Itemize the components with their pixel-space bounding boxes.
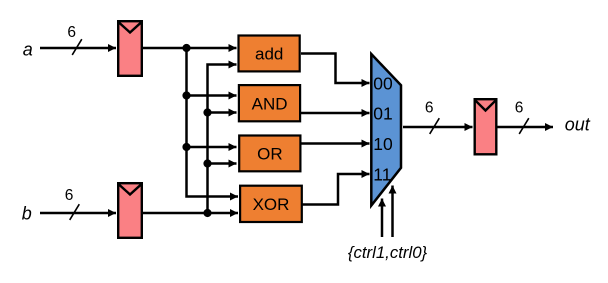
svg-text:out: out — [565, 115, 591, 135]
svg-text:10: 10 — [373, 134, 393, 154]
svg-text:11: 11 — [373, 165, 391, 185]
svg-text:6: 6 — [425, 100, 434, 117]
svg-text:6: 6 — [65, 187, 74, 204]
svg-text:01: 01 — [373, 104, 392, 124]
svg-text:AND: AND — [252, 94, 288, 113]
svg-text:6: 6 — [515, 100, 524, 117]
svg-text:00: 00 — [373, 74, 393, 94]
svg-text:OR: OR — [257, 145, 283, 164]
svg-text:add: add — [255, 45, 283, 64]
svg-text:a: a — [23, 40, 33, 60]
svg-text:6: 6 — [67, 24, 76, 41]
svg-text:XOR: XOR — [253, 195, 290, 214]
svg-text:{ctrl1,ctrl0}: {ctrl1,ctrl0} — [348, 243, 428, 262]
svg-text:b: b — [22, 204, 32, 224]
